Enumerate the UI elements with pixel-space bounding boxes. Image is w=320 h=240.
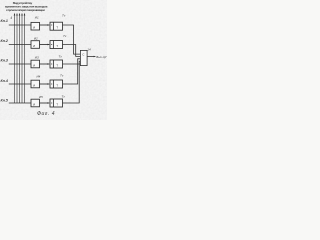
svg-text:И1: И1 xyxy=(35,16,39,20)
svg-text:Вых ЦУ: Вых ЦУ xyxy=(96,55,107,59)
svg-text:И: И xyxy=(33,83,35,87)
svg-text:Т: Т xyxy=(56,63,58,67)
svg-text:Фиг. 4: Фиг. 4 xyxy=(37,111,55,117)
svg-text:Т: Т xyxy=(56,102,58,106)
svg-text:И: И xyxy=(33,26,35,30)
svg-text:4: 4 xyxy=(10,16,12,20)
svg-text:И3: И3 xyxy=(35,55,39,59)
svg-text:Т: Т xyxy=(56,44,58,48)
svg-text:Тг: Тг xyxy=(60,74,64,78)
svg-text:И: И xyxy=(33,63,35,67)
svg-text:И: И xyxy=(33,44,35,48)
svg-text:Кн.4: Кн.4 xyxy=(1,79,8,83)
svg-text:Т: Т xyxy=(56,26,58,30)
svg-text:И2: И2 xyxy=(34,36,38,40)
svg-text:Кн.5: Кн.5 xyxy=(1,99,9,103)
svg-text:Кн.3: Кн.3 xyxy=(1,58,8,62)
svg-text:И5: И5 xyxy=(39,95,43,99)
svg-text:И: И xyxy=(33,102,35,106)
svg-text:И4: И4 xyxy=(37,74,41,78)
svg-text:с пультом операт синхронизации: с пультом операт синхронизации xyxy=(6,8,45,12)
svg-text:Кн.2: Кн.2 xyxy=(1,39,8,43)
svg-text:Кн.1: Кн.1 xyxy=(1,19,8,23)
svg-text:Тг: Тг xyxy=(62,14,66,18)
svg-text:Тг: Тг xyxy=(63,34,67,38)
svg-text:Т: Т xyxy=(56,83,58,87)
svg-text:Тг: Тг xyxy=(59,54,63,58)
svg-text:Тг: Тг xyxy=(62,94,66,98)
svg-text:14: 14 xyxy=(87,47,91,51)
